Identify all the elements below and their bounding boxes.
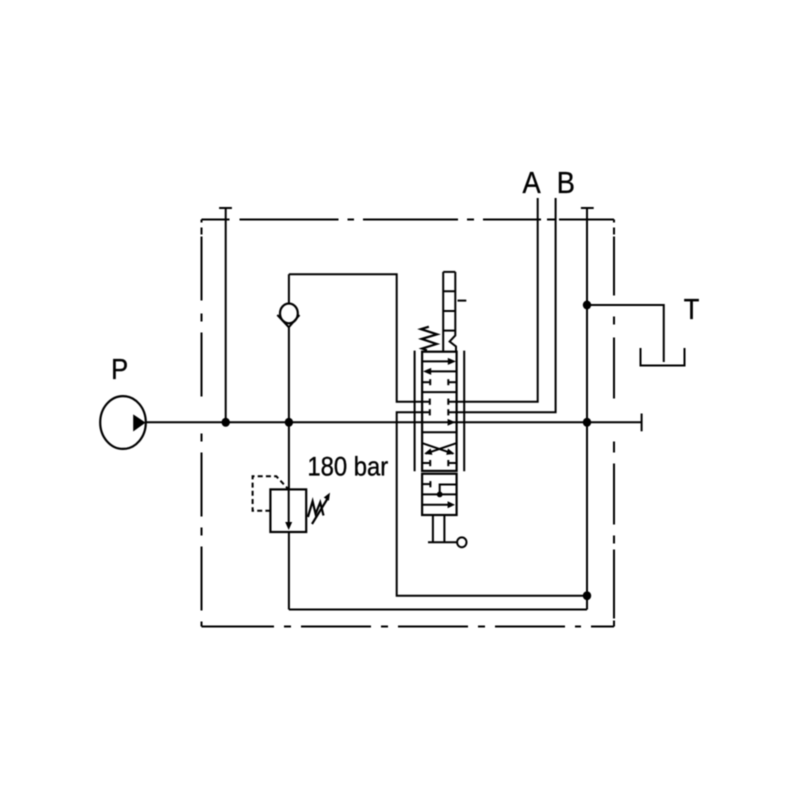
svg-text:A: A bbox=[523, 166, 542, 200]
svg-text:P: P bbox=[111, 352, 128, 385]
svg-text:T: T bbox=[684, 292, 700, 325]
svg-text:180 bar: 180 bar bbox=[307, 452, 388, 481]
svg-text:B: B bbox=[557, 166, 575, 200]
